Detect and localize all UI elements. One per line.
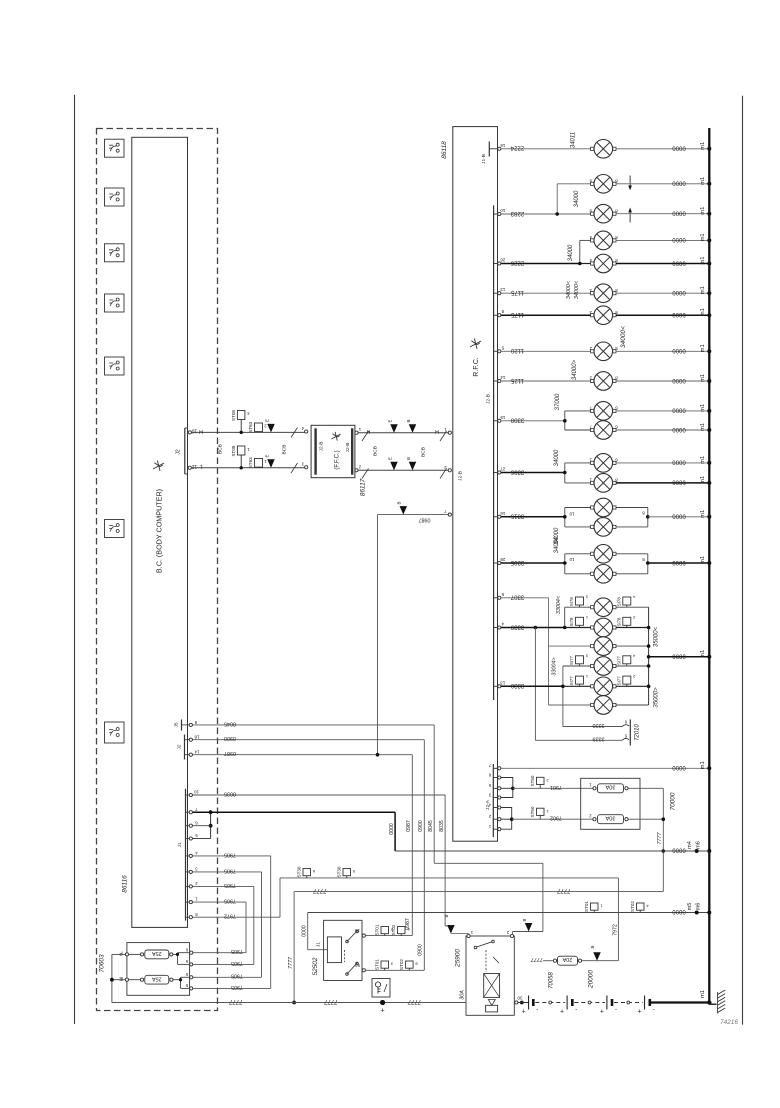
svg-text:B: B bbox=[444, 914, 449, 917]
pin J2-B/26 at y263.5 bbox=[494, 258, 506, 266]
svg-text:m1: m1 bbox=[700, 510, 706, 518]
svg-text:m1: m1 bbox=[700, 308, 706, 316]
svg-text:3339: 3339 bbox=[510, 623, 524, 629]
battery cell 4 20000 bbox=[638, 996, 655, 1016]
svg-text:72010: 72010 bbox=[635, 723, 641, 740]
shield slashes at 86118 side bbox=[362, 431, 369, 441]
branch 3315 lamps bbox=[563, 508, 591, 527]
wire 0000 lamp1 to ground m1 bbox=[616, 148, 709, 150]
svg-text:25A: 25A bbox=[152, 975, 162, 981]
wire CAN L from FFC to 86118 J2-B pin2 bbox=[358, 469, 448, 471]
wire CAN H from FFC to 86118 J2-B pin1 bbox=[358, 432, 448, 434]
svg-text:7905: 7905 bbox=[231, 960, 243, 966]
svg-text:2224: 2224 bbox=[510, 145, 524, 151]
svg-text:J5: J5 bbox=[174, 722, 180, 727]
lamp 34000 c1 bbox=[594, 454, 613, 473]
svg-text:27: 27 bbox=[500, 467, 506, 472]
svg-text:R.F.C.: R.F.C. bbox=[473, 357, 480, 377]
svg-text:ST01: ST01 bbox=[375, 924, 380, 935]
turn arrow up bbox=[628, 208, 632, 223]
splice ST01 pin1 bbox=[584, 901, 603, 913]
battery positive node bbox=[380, 1000, 385, 1015]
wire to battery plus bbox=[294, 998, 466, 1004]
splice ST50 pin1 bbox=[530, 806, 549, 819]
svg-text:18: 18 bbox=[194, 735, 199, 740]
indicator icon box 1 bbox=[105, 139, 125, 157]
lamp 34000 d2 bbox=[594, 518, 613, 537]
wire 0000 cluster bbox=[649, 656, 710, 658]
svg-text:m1: m1 bbox=[700, 286, 706, 294]
svg-text:ST30: ST30 bbox=[297, 866, 302, 877]
wire 3330 to 72010 bbox=[563, 722, 622, 728]
branch 37000 lamps bbox=[563, 411, 591, 430]
svg-text:+: + bbox=[522, 1009, 526, 1016]
page frame left trim line bbox=[74, 95, 76, 1024]
wire 1175 a bbox=[501, 292, 591, 294]
wire 0000 lamp6 bbox=[616, 292, 709, 294]
svg-text:m6: m6 bbox=[695, 903, 701, 911]
svg-text:34000: 34000 bbox=[568, 244, 574, 261]
svg-text:34011: 34011 bbox=[571, 132, 577, 148]
svg-text:m1: m1 bbox=[700, 142, 706, 150]
right merge 3305 bbox=[616, 554, 650, 574]
svg-text:0000: 0000 bbox=[389, 823, 395, 835]
lamp cluster f4 bbox=[594, 657, 613, 676]
lamp 34000 position left bbox=[594, 231, 613, 250]
svg-text:0000: 0000 bbox=[672, 210, 686, 216]
svg-text:ST50: ST50 bbox=[530, 775, 535, 786]
pin 70603/6 at 952.7 bbox=[185, 948, 193, 955]
pin J2-B/13 at y686.3 bbox=[494, 680, 506, 688]
wire 7905 pair y871.9 bbox=[192, 867, 262, 978]
svg-text:16: 16 bbox=[500, 143, 506, 148]
wire relay pin15 to ST01/ST02 bbox=[366, 935, 413, 937]
svg-text:SI78: SI78 bbox=[616, 597, 621, 607]
wire 3305 bbox=[501, 562, 565, 564]
tie bar J2-A pins 8-5-3 bbox=[501, 778, 515, 798]
svg-text:7905: 7905 bbox=[224, 882, 236, 888]
wire 0000 lamp13 bbox=[616, 482, 709, 484]
splice ST30 pin6 bbox=[297, 866, 316, 878]
svg-text:m1: m1 bbox=[700, 207, 706, 215]
wire 0000 lamp12 bbox=[616, 462, 709, 464]
pin J2-A/8 bbox=[488, 772, 501, 779]
svg-text:37000: 37000 bbox=[555, 393, 561, 410]
pin J2-B/4 at y627.5 bbox=[494, 622, 504, 630]
svg-text:13: 13 bbox=[500, 680, 506, 685]
svg-text:ST08: ST08 bbox=[231, 445, 236, 456]
label R.F.C. with clock bbox=[470, 339, 481, 377]
svg-text:m1: m1 bbox=[700, 177, 706, 185]
fuse outputs to box pins bbox=[173, 953, 190, 989]
svg-text:H: H bbox=[199, 428, 203, 434]
wire 7905 pair y886.4 bbox=[192, 882, 254, 966]
svg-text:J2-B: J2-B bbox=[319, 442, 325, 452]
splice SI77 right pin4 bbox=[616, 654, 635, 667]
svg-text:m1: m1 bbox=[700, 344, 706, 352]
svg-text:E: E bbox=[388, 419, 393, 422]
lamp cluster f5 bbox=[594, 677, 613, 696]
svg-text:m1: m1 bbox=[700, 256, 706, 264]
lamp cluster f2 bbox=[594, 618, 613, 637]
svg-text:J1: J1 bbox=[177, 842, 183, 847]
svg-text:3306: 3306 bbox=[510, 468, 524, 474]
connector J2 of B.C. bbox=[176, 428, 198, 475]
svg-text:35000>: 35000> bbox=[654, 687, 660, 708]
wire 0000 from J2-A pin7 bbox=[501, 767, 709, 769]
svg-text:m5: m5 bbox=[687, 903, 693, 911]
svg-text:0000: 0000 bbox=[672, 311, 686, 317]
svg-text:J2: J2 bbox=[177, 744, 183, 749]
svg-text:m1: m1 bbox=[700, 404, 706, 412]
svg-text:m6: m6 bbox=[695, 841, 701, 849]
lamp 37000 b bbox=[594, 421, 613, 440]
ground arrow B29 bbox=[406, 457, 416, 470]
svg-text:70058: 70058 bbox=[549, 971, 555, 988]
svg-text:0987: 0987 bbox=[224, 750, 236, 756]
svg-text:ST02: ST02 bbox=[399, 959, 404, 970]
svg-text:0000: 0000 bbox=[672, 764, 686, 770]
wire 3315 bbox=[501, 516, 565, 518]
arrow B28 bbox=[522, 918, 532, 931]
indicator icon box 6 bbox=[105, 520, 125, 538]
dashed link wire bbox=[535, 1002, 565, 1004]
svg-text:m1: m1 bbox=[700, 233, 706, 241]
turn arrow down bbox=[628, 176, 632, 191]
svg-text:E: E bbox=[388, 457, 393, 460]
svg-text:SI77: SI77 bbox=[616, 676, 621, 686]
lamp cluster f1 bbox=[594, 598, 613, 617]
FFC interconnect box 86117 bbox=[301, 425, 361, 477]
svg-text:m4: m4 bbox=[687, 841, 693, 849]
svg-text:7777: 7777 bbox=[657, 832, 663, 845]
chassis ground hatch bbox=[709, 1003, 716, 1005]
wire 0000 lamp2 bbox=[616, 183, 709, 185]
svg-text:34000>: 34000> bbox=[572, 359, 578, 380]
svg-text:14: 14 bbox=[500, 375, 506, 380]
pin J2-B/28 at y563 bbox=[494, 557, 506, 565]
pin 30 of starter bbox=[515, 996, 524, 1005]
branch 3305 lamps bbox=[563, 554, 591, 574]
svg-text:ST30: ST30 bbox=[337, 866, 342, 877]
wire 1120 bbox=[501, 350, 591, 352]
svg-text:0000: 0000 bbox=[672, 407, 686, 413]
pin J2-A/1 bbox=[488, 824, 501, 831]
svg-text:70603: 70603 bbox=[99, 954, 106, 972]
wire 7905 pair y855.9 bbox=[192, 851, 271, 990]
svg-text:30A: 30A bbox=[605, 814, 615, 820]
svg-text:3339: 3339 bbox=[593, 736, 605, 742]
pin J2-A/7 bbox=[488, 763, 501, 770]
svg-text:3308: 3308 bbox=[510, 417, 524, 423]
svg-text:BCB: BCB bbox=[218, 444, 224, 454]
svg-text:2226: 2226 bbox=[510, 259, 524, 265]
svg-text:-: - bbox=[536, 1007, 538, 1013]
tie bar J2-A pins 4-2-1 bbox=[501, 808, 514, 830]
svg-text:3307: 3307 bbox=[510, 594, 524, 600]
svg-text:+: + bbox=[560, 1009, 564, 1016]
svg-text:26: 26 bbox=[500, 258, 506, 263]
splice ST50 pin2 bbox=[530, 775, 549, 788]
wire CAN L from J2-12 to FFC bbox=[191, 467, 305, 469]
svg-text:ST02: ST02 bbox=[630, 901, 635, 912]
pin J2-B/8 at y315.2 bbox=[494, 309, 504, 317]
splice SI77 left pin3 bbox=[569, 654, 588, 667]
svg-text:0000: 0000 bbox=[672, 145, 686, 151]
fuse 30A lower bbox=[589, 814, 628, 824]
wire 0000 lamp3 bbox=[616, 213, 709, 215]
svg-text:3305: 3305 bbox=[510, 559, 524, 565]
svg-text:70000: 70000 bbox=[670, 792, 677, 810]
svg-text:7902: 7902 bbox=[550, 815, 562, 821]
wire 7972 from J1 pin8 bbox=[192, 878, 618, 961]
svg-text:10: 10 bbox=[500, 208, 506, 213]
lamp 34000 turn left bbox=[594, 175, 613, 194]
dashed link wire bbox=[574, 1002, 605, 1004]
lamp 34000 tail left bbox=[594, 284, 613, 303]
fuse 30A upper bbox=[589, 783, 628, 793]
svg-text:7777: 7777 bbox=[324, 998, 338, 1004]
svg-text:86116: 86116 bbox=[122, 875, 129, 893]
relay 52502 bbox=[316, 920, 366, 980]
splice ST63 pin1 bbox=[248, 457, 266, 468]
svg-text:+: + bbox=[638, 1009, 642, 1016]
svg-text:7905: 7905 bbox=[224, 898, 236, 904]
splice ST02 pin6 bbox=[391, 924, 410, 936]
svg-text:8035: 8035 bbox=[439, 820, 445, 832]
svg-text:0900: 0900 bbox=[224, 735, 236, 741]
svg-text:0900: 0900 bbox=[418, 820, 424, 832]
svg-text:14: 14 bbox=[194, 750, 199, 755]
svg-text:1120: 1120 bbox=[510, 347, 524, 353]
connector J5 of B.C. bbox=[174, 720, 198, 731]
svg-text:25A: 25A bbox=[152, 950, 162, 956]
dashed link wire bbox=[614, 1002, 643, 1004]
ground arrow E21 bbox=[388, 419, 398, 432]
wire 8035 pin10 stub left bbox=[191, 794, 193, 796]
svg-text:J1: J1 bbox=[316, 942, 321, 947]
lamp 37000 a bbox=[594, 402, 613, 421]
lamp 34000 e2 bbox=[594, 565, 613, 584]
wire 0000 group16 bbox=[648, 562, 710, 564]
svg-text:B: B bbox=[406, 419, 411, 422]
wire 2283 bbox=[501, 213, 557, 215]
pin J2-B/27 at y472.5 bbox=[494, 467, 506, 475]
arrow B2 bbox=[444, 914, 455, 933]
svg-text:20A: 20A bbox=[562, 956, 572, 962]
B.C. dashed boundary box bbox=[97, 129, 218, 1011]
lamp 34000 plate left bbox=[594, 342, 613, 361]
svg-text:J2-B: J2-B bbox=[486, 394, 492, 404]
fuse 70058 20A bbox=[530, 956, 618, 965]
svg-text:34000: 34000 bbox=[554, 449, 560, 466]
pin 70603/6 at 964.4 bbox=[185, 959, 193, 966]
svg-text:+: + bbox=[381, 1008, 385, 1015]
svg-text:1125: 1125 bbox=[510, 377, 524, 383]
wire 0987 horizontal bbox=[192, 750, 412, 936]
svg-text:0000: 0000 bbox=[672, 479, 686, 485]
svg-text:0987: 0987 bbox=[406, 820, 412, 832]
splice ST01 pin3 bbox=[375, 959, 394, 971]
svg-text:m1: m1 bbox=[700, 476, 706, 484]
connector J2-B bracket of 86118 bbox=[493, 205, 495, 700]
svg-text:B: B bbox=[406, 457, 411, 460]
svg-text:7777: 7777 bbox=[313, 887, 327, 893]
svg-text:7905: 7905 bbox=[224, 867, 236, 873]
svg-text:7905: 7905 bbox=[231, 984, 243, 990]
splice ST63 pin2 bbox=[248, 421, 266, 432]
svg-text:3315: 3315 bbox=[510, 513, 524, 519]
svg-text:52502: 52502 bbox=[312, 957, 319, 975]
wire 0000 to relay coil bbox=[302, 913, 328, 950]
svg-text:3330: 3330 bbox=[593, 722, 605, 728]
wire 7777 battery row left bbox=[112, 998, 294, 1004]
splice SI78 left pin1 bbox=[569, 615, 588, 628]
svg-text:0900: 0900 bbox=[418, 944, 424, 956]
svg-text:33004>: 33004> bbox=[552, 657, 558, 675]
svg-text:J2-B: J2-B bbox=[458, 471, 464, 481]
wire 8035 bbox=[192, 790, 451, 926]
svg-text:-: - bbox=[653, 1007, 655, 1013]
connector J2 lower of B.C. bbox=[177, 735, 200, 760]
svg-text:30: 30 bbox=[517, 996, 523, 1001]
pin 70603/5 at 988.4 bbox=[185, 983, 193, 990]
svg-text:0000: 0000 bbox=[672, 377, 686, 383]
svg-text:(F.F.C.): (F.F.C.) bbox=[335, 450, 341, 469]
indicator icon box 3 bbox=[105, 244, 125, 262]
shield slashes near FFC bbox=[291, 428, 298, 438]
arrow B40 bbox=[590, 945, 601, 960]
pin J2-B/14 at y381 bbox=[494, 375, 506, 383]
wire 3330 branches bbox=[561, 666, 590, 727]
svg-text:m1: m1 bbox=[700, 761, 706, 769]
svg-text:33004<: 33004< bbox=[556, 596, 562, 614]
wire 8045 bbox=[192, 720, 543, 931]
svg-text:25900: 25900 bbox=[455, 949, 462, 968]
indicator icon box 4 bbox=[105, 294, 125, 312]
clock symbol of B.C. bbox=[153, 463, 164, 469]
lamp cluster f6 bbox=[594, 696, 613, 715]
wire 0000 heavy from J1 pin7 bbox=[192, 810, 395, 851]
svg-text:16: 16 bbox=[500, 511, 506, 516]
svg-text:0987: 0987 bbox=[419, 517, 431, 523]
splice SI78 right pin2 bbox=[616, 615, 635, 628]
lamp 34000 d1 bbox=[594, 498, 613, 517]
svg-text:J1-B: J1-B bbox=[481, 154, 487, 164]
ground arrow E20 bbox=[388, 457, 398, 470]
svg-text:SI78: SI78 bbox=[569, 617, 574, 627]
lamp 34000 turn right bbox=[594, 204, 613, 223]
wire 1175 b bbox=[501, 314, 591, 316]
wire 0000 lamp9 bbox=[616, 380, 709, 382]
svg-text:ST50: ST50 bbox=[530, 806, 535, 817]
ground arrow E4 bbox=[265, 419, 275, 432]
fuse 25A lower bbox=[140, 975, 173, 984]
lamp cluster f3 bbox=[594, 637, 613, 656]
wire 7777 from fuses bbox=[628, 788, 665, 891]
svg-text:34000: 34000 bbox=[554, 536, 560, 553]
svg-text:SI77: SI77 bbox=[569, 676, 574, 686]
svg-text:1175: 1175 bbox=[510, 311, 524, 317]
wire 0000 m4/m6 row bbox=[395, 841, 711, 853]
svg-text:E: E bbox=[265, 419, 270, 422]
svg-text:34000: 34000 bbox=[574, 190, 580, 207]
svg-text:7777: 7777 bbox=[229, 998, 243, 1004]
svg-text:8045: 8045 bbox=[428, 820, 434, 832]
wire 7777 left vertical bbox=[288, 892, 296, 1005]
splice ST02 pin8 bbox=[399, 959, 418, 971]
connector J2-A bracket of 86118 bbox=[492, 764, 494, 837]
svg-text:7972: 7972 bbox=[224, 913, 236, 919]
svg-text:7777: 7777 bbox=[407, 998, 421, 1004]
svg-text:8035: 8035 bbox=[224, 790, 236, 796]
svg-text:0000: 0000 bbox=[672, 259, 686, 265]
svg-text:BCB: BCB bbox=[282, 445, 288, 455]
svg-text:7777: 7777 bbox=[530, 956, 543, 962]
svg-text:7777: 7777 bbox=[288, 956, 294, 969]
86118 left pins 1,2,7 bbox=[444, 427, 464, 516]
svg-text:B.C. (BODY COMPUTER): B.C. (BODY COMPUTER) bbox=[155, 489, 164, 573]
svg-text:ST02: ST02 bbox=[391, 924, 396, 935]
fuse box 70000 bbox=[581, 778, 640, 829]
lamp 34000 e1 bbox=[594, 545, 613, 564]
lamp 34000 plate right bbox=[594, 372, 613, 391]
svg-text:10: 10 bbox=[569, 557, 574, 562]
svg-text:SI77: SI77 bbox=[569, 655, 574, 665]
splice ST08 pin4 bbox=[231, 410, 250, 435]
svg-text:86118: 86118 bbox=[441, 141, 448, 159]
battery cell 1 20000 bbox=[522, 996, 539, 1016]
svg-text:+: + bbox=[600, 1009, 604, 1016]
wire 0000 lamp4 bbox=[616, 239, 709, 241]
pin J2-A/3 bbox=[488, 792, 501, 799]
svg-text:0000: 0000 bbox=[672, 289, 686, 295]
svg-text:B: B bbox=[397, 501, 402, 504]
svg-text:7905: 7905 bbox=[224, 851, 236, 857]
wire 0000 lamp7 bbox=[616, 314, 709, 316]
wire pin30 to battery bbox=[518, 1002, 529, 1004]
wire 3339 branches bbox=[534, 607, 591, 740]
page frame right trim line bbox=[742, 96, 744, 1025]
RFC box 86118 bbox=[453, 127, 498, 842]
battery cell 2 20000 bbox=[560, 996, 577, 1016]
svg-text:L: L bbox=[199, 463, 202, 469]
splice SI77 right pin2 bbox=[616, 674, 635, 687]
svg-text:10: 10 bbox=[569, 511, 574, 516]
svg-text:0000: 0000 bbox=[302, 925, 308, 937]
svg-text:30A: 30A bbox=[605, 784, 615, 790]
svg-text:0000: 0000 bbox=[672, 513, 686, 519]
connector J1-B pin16 bbox=[481, 142, 505, 164]
svg-text:m1: m1 bbox=[700, 650, 706, 658]
wire branch to lamp2 bbox=[555, 184, 590, 216]
svg-text:1175: 1175 bbox=[510, 289, 524, 295]
pin J2-A/2 bbox=[488, 814, 501, 821]
svg-text:m1: m1 bbox=[700, 374, 706, 382]
svg-text:0000: 0000 bbox=[672, 347, 686, 353]
svg-text:28: 28 bbox=[500, 557, 506, 562]
pin J2-A/4 bbox=[488, 802, 501, 809]
wire 0000 lamp5 bbox=[616, 263, 709, 265]
wire 1125 bbox=[501, 380, 591, 382]
svg-text:-: - bbox=[615, 1007, 617, 1013]
svg-text:B: B bbox=[522, 918, 527, 921]
wires F/E to fuses bbox=[129, 953, 141, 955]
splice SI78 left pin3 bbox=[569, 595, 588, 608]
ground bus bar m1/m6 bbox=[708, 128, 710, 1004]
ignition key symbol box bbox=[372, 979, 390, 998]
svg-text:0000: 0000 bbox=[672, 559, 686, 565]
